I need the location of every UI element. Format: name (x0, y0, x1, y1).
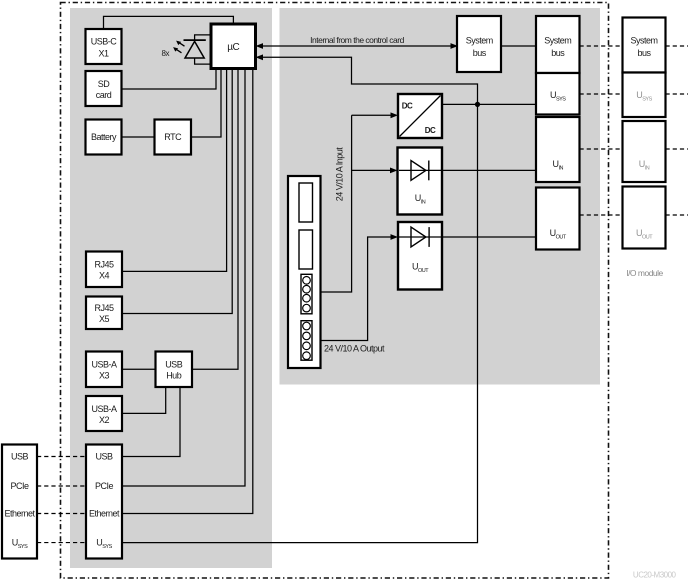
wire UIN through-diode to UIN bus box (398, 169, 537, 171)
label Internal from the control card (310, 35, 404, 45)
svg-text:Battery: Battery (91, 132, 117, 142)
svg-text:PCIe: PCIe (95, 481, 114, 491)
wire DC/DC output to USYS bus box (442, 103, 536, 105)
label UC20-M3000 (633, 571, 677, 580)
svg-text:bus: bus (473, 48, 487, 58)
dashed link PCIe external (37, 485, 86, 487)
svg-text:card: card (96, 90, 112, 100)
svg-text:bus: bus (551, 48, 565, 58)
svg-text:USB: USB (95, 452, 113, 462)
bus column USYS (I/O module) (623, 73, 666, 118)
label 24 V/10 A Output (324, 344, 385, 354)
wire PCIe to µC (122, 69, 245, 487)
block RJ45 X4 (86, 252, 122, 288)
wire RJ45 X5 to µC (122, 69, 232, 314)
block USB-C X1 (86, 29, 122, 64)
svg-text:Ethernet: Ethernet (4, 509, 35, 519)
svg-text:System: System (466, 36, 493, 46)
svg-text:RJ45: RJ45 (94, 260, 114, 270)
wire Ethernet to µC (122, 69, 253, 514)
block UIN with diode (398, 148, 443, 215)
LED D1 indicator (8x) (173, 35, 211, 64)
dashed link USYS to I/O module (580, 93, 688, 95)
svg-text:I/O module: I/O module (626, 268, 663, 278)
dashed link UOUT to I/O module (580, 214, 688, 216)
svg-text:USB-A: USB-A (91, 404, 117, 414)
svg-text:X4: X4 (99, 271, 110, 281)
svg-text:UC20-M3000: UC20-M3000 (633, 571, 677, 580)
wire RTC to µC (191, 69, 221, 138)
svg-text:System: System (630, 36, 657, 46)
bus column USYS (module edge) (536, 73, 580, 115)
gray panel left (controller area) (70, 8, 272, 568)
block internal port strip USB PCIe Ethernet USYS (86, 445, 122, 559)
wire SD card to µC (122, 69, 217, 90)
svg-text:USB: USB (11, 452, 29, 462)
wire 24V output from connector to UOUT (319, 234, 399, 340)
wire Battery to RTC (122, 136, 155, 138)
svg-text:USB: USB (165, 360, 183, 370)
svg-text:SD: SD (98, 79, 111, 89)
svg-text:DC: DC (402, 102, 413, 111)
svg-text:USB-C: USB-C (91, 37, 118, 47)
svg-text:PCIe: PCIe (10, 481, 29, 491)
svg-text:DC: DC (425, 126, 436, 135)
block System bus (control card) (457, 16, 501, 72)
svg-text:Ethernet: Ethernet (89, 509, 120, 519)
block UOUT with diode (398, 222, 442, 290)
wire USB port to USB Hub (122, 387, 180, 457)
dashed link system bus to I/O module (580, 45, 688, 47)
wire System bus box to system bus column (501, 45, 537, 47)
wire USB-C X1 to µC top (104, 16, 234, 29)
bus column System bus (module edge) (536, 16, 580, 73)
bus column System bus (I/O module) (623, 18, 666, 73)
block USB-A X2 (86, 396, 122, 431)
block RJ45 X5 (86, 297, 122, 330)
label 8x (162, 49, 170, 58)
svg-text:RJ45: RJ45 (94, 303, 114, 313)
junction USYS node dot (475, 102, 480, 107)
wire UOUT through-diode to UOUT bus box (398, 236, 536, 238)
svg-text:USB-A: USB-A (91, 360, 117, 370)
wire 24V input from connector to DC/DC and UIN (319, 112, 399, 292)
bus column UOUT (module edge) (536, 188, 580, 250)
label I/O module (626, 268, 663, 278)
svg-text:24 V/10 A Input: 24 V/10 A Input (334, 147, 344, 202)
svg-text:System: System (544, 36, 571, 46)
gray panel middle (power supply area) (280, 8, 601, 385)
svg-text:RTC: RTC (164, 132, 182, 142)
wire USYS net from bottom port up to µC (122, 54, 478, 542)
bus column UOUT (I/O module) (623, 187, 666, 249)
wire USB-A X2 to USB Hub (122, 387, 166, 413)
connector 24V terminal block (288, 176, 321, 368)
svg-text:X3: X3 (99, 371, 110, 381)
dashed link UIN to I/O module (580, 148, 688, 150)
svg-text:8x: 8x (162, 49, 170, 58)
svg-text:bus: bus (637, 48, 651, 58)
wire RJ45 X4 to µC (122, 69, 227, 272)
block USB Hub (156, 352, 193, 388)
label 24 V/10 A Input (rotated) (334, 147, 344, 202)
block RTC (155, 120, 192, 155)
svg-text:Hub: Hub (166, 371, 182, 381)
block USB-A X3 (86, 352, 122, 388)
dashed module border (61, 3, 609, 579)
svg-text:X5: X5 (99, 314, 110, 324)
svg-text:24 V/10 A Output: 24 V/10 A Output (324, 344, 385, 354)
wire USB Hub to µC (192, 69, 238, 370)
svg-text:Internal from the control card: Internal from the control card (310, 35, 404, 45)
wire internal bus µC to System bus (double arrow) (256, 43, 459, 49)
dashed link USB external (37, 456, 86, 458)
bus column UIN (module edge) (536, 117, 580, 182)
dashed link USYS external (37, 542, 86, 544)
block SD card (86, 71, 122, 106)
wire USB-A X3 to USB Hub (122, 368, 156, 370)
block external port strip USB PCIe Ethernet USYS (2, 445, 37, 559)
op-amp µC microcontroller block (211, 24, 256, 69)
bus column UIN (I/O module) (623, 121, 666, 182)
svg-text:X1: X1 (98, 49, 109, 59)
dashed link Ethernet external (37, 513, 86, 515)
converter DC/DC (398, 94, 442, 138)
block Battery (86, 120, 122, 155)
svg-text:µC: µC (227, 42, 239, 53)
svg-text:X2: X2 (99, 415, 110, 425)
